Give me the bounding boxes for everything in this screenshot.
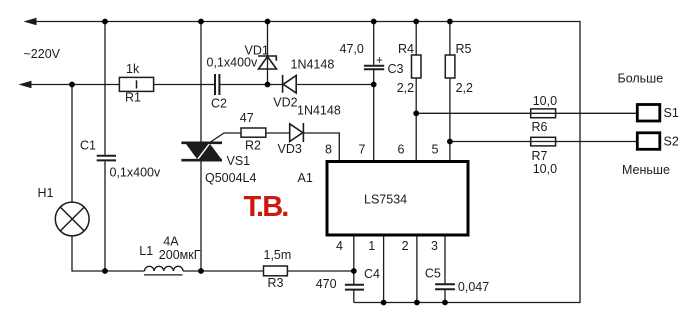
svg-text:3: 3 xyxy=(431,239,438,253)
svg-text:~220V: ~220V xyxy=(24,47,61,61)
svg-text:2,2: 2,2 xyxy=(397,81,414,95)
resistor R1 xyxy=(119,77,153,91)
node pin1 bottom xyxy=(381,300,387,306)
arrow top left xyxy=(24,18,37,26)
wire pin 2 branch xyxy=(416,237,418,303)
node VD1 VD2 junction xyxy=(265,82,271,88)
node R6 tap xyxy=(413,110,419,116)
svg-text:10,0: 10,0 xyxy=(533,94,557,108)
node R3 pin4 xyxy=(351,268,357,274)
diode VD1 zener xyxy=(258,56,277,69)
switch S2 xyxy=(637,133,660,150)
svg-text:R2: R2 xyxy=(245,138,261,152)
capacitor C1 xyxy=(97,156,116,161)
svg-text:H1: H1 xyxy=(38,186,54,200)
node H1 tap xyxy=(69,82,75,88)
node top rail VD1 xyxy=(265,19,271,25)
svg-text:5: 5 xyxy=(432,143,439,157)
svg-text:4A: 4A xyxy=(163,235,179,249)
resistor R5 xyxy=(445,55,455,78)
wire top rail xyxy=(33,22,580,303)
svg-text:S2: S2 xyxy=(664,134,679,148)
node pin3 bottom xyxy=(442,300,448,306)
wire C3 / pin 7 branch xyxy=(373,22,375,161)
svg-text:R6: R6 xyxy=(532,120,548,134)
svg-text:1k: 1k xyxy=(126,62,140,76)
svg-text:R3: R3 xyxy=(268,276,284,290)
wire bottom L1 R3 xyxy=(183,270,354,272)
node top rail C3 xyxy=(371,19,377,25)
svg-text:VS1: VS1 xyxy=(227,154,251,168)
capacitor C4 xyxy=(345,285,364,290)
lamp H1 xyxy=(55,202,89,236)
node R7 tap xyxy=(447,139,453,145)
diode VD3 xyxy=(290,123,304,142)
svg-text:0,1x400v: 0,1x400v xyxy=(207,56,258,70)
svg-text:7: 7 xyxy=(359,143,366,157)
node top rail C1 xyxy=(102,19,108,25)
svg-text:C4: C4 xyxy=(364,267,380,281)
svg-text:1N4148: 1N4148 xyxy=(297,104,341,118)
capacitor C3 xyxy=(364,66,384,69)
resistor R4 xyxy=(412,55,422,78)
svg-text:4: 4 xyxy=(336,239,343,253)
svg-text:200мкГ: 200мкГ xyxy=(159,248,201,262)
capacitor C5 xyxy=(435,284,455,289)
svg-text:10,0: 10,0 xyxy=(533,162,557,176)
node VS1 bottom xyxy=(198,268,204,274)
inductor L1 xyxy=(144,266,183,275)
svg-text:0,047: 0,047 xyxy=(458,280,489,294)
svg-text:C3: C3 xyxy=(388,62,404,76)
svg-text:Меньше: Меньше xyxy=(622,163,670,177)
op-amp U1 LS7534 IC box xyxy=(327,162,468,236)
resistor R3 xyxy=(264,266,288,276)
svg-text:0,1x400v: 0,1x400v xyxy=(110,166,161,180)
svg-text:47: 47 xyxy=(240,111,254,125)
triac VS1 xyxy=(181,143,222,160)
svg-text:1N4148: 1N4148 xyxy=(291,58,335,72)
svg-text:+: + xyxy=(376,55,383,67)
wire R4 / pin 6 branch xyxy=(415,22,417,161)
wire C1 branch xyxy=(104,22,106,272)
svg-text:C5: C5 xyxy=(425,267,441,281)
svg-text:R5: R5 xyxy=(456,42,472,56)
node top rail VS1 xyxy=(198,19,204,25)
svg-text:470: 470 xyxy=(316,277,337,291)
wire pin 4 / C4 branch xyxy=(353,237,355,303)
svg-text:VD3: VD3 xyxy=(278,142,302,156)
switch S1 xyxy=(637,105,660,122)
capacitor C2 xyxy=(215,74,219,95)
svg-text:1,5m: 1,5m xyxy=(264,248,292,262)
svg-text:R1: R1 xyxy=(125,91,141,105)
node pin2 bottom xyxy=(414,300,420,306)
wire pin 3 / C5 branch xyxy=(444,237,446,303)
svg-text:VD1: VD1 xyxy=(245,44,269,58)
node C3 tap xyxy=(371,82,377,88)
wire gate to R2 VD3 pin 8 xyxy=(211,133,340,160)
wire lower input rail xyxy=(29,84,374,86)
svg-text:LS7534: LS7534 xyxy=(364,193,407,207)
arrow lower left xyxy=(19,81,32,89)
svg-text:A1: A1 xyxy=(298,171,313,185)
resistor R7 xyxy=(531,137,556,146)
svg-text:C2: C2 xyxy=(211,97,227,111)
wire H1 branch xyxy=(72,85,145,272)
svg-text:2: 2 xyxy=(402,239,409,253)
wire R7 to S2 xyxy=(450,141,636,143)
svg-text:R4: R4 xyxy=(398,42,414,56)
svg-text:6: 6 xyxy=(398,143,405,157)
svg-text:47,0: 47,0 xyxy=(340,42,364,56)
svg-text:S1: S1 xyxy=(664,106,679,120)
resistor R6 xyxy=(531,109,556,118)
wire R6 to S1 xyxy=(416,112,636,114)
wire pin 1 branch xyxy=(383,237,385,303)
node top rail R5 xyxy=(447,19,453,25)
svg-text:VD2: VD2 xyxy=(273,95,297,109)
svg-text:L1: L1 xyxy=(139,244,153,258)
svg-text:2,2: 2,2 xyxy=(456,81,473,95)
svg-text:Больше: Больше xyxy=(618,71,664,85)
wire VS1 branch xyxy=(200,22,202,272)
svg-text:Т.В.: Т.В. xyxy=(244,191,289,223)
svg-text:C1: C1 xyxy=(80,139,96,153)
svg-text:1: 1 xyxy=(368,239,375,253)
wire VD1 branch xyxy=(267,22,269,85)
svg-text:8: 8 xyxy=(325,143,332,157)
resistor R2 xyxy=(241,128,266,137)
wire R5 / pin 5 branch xyxy=(449,22,451,161)
diode VD2 xyxy=(283,75,297,93)
svg-text:Q5004L4: Q5004L4 xyxy=(205,171,256,185)
node top rail R4 xyxy=(413,19,419,25)
node C1 bottom xyxy=(102,268,108,274)
